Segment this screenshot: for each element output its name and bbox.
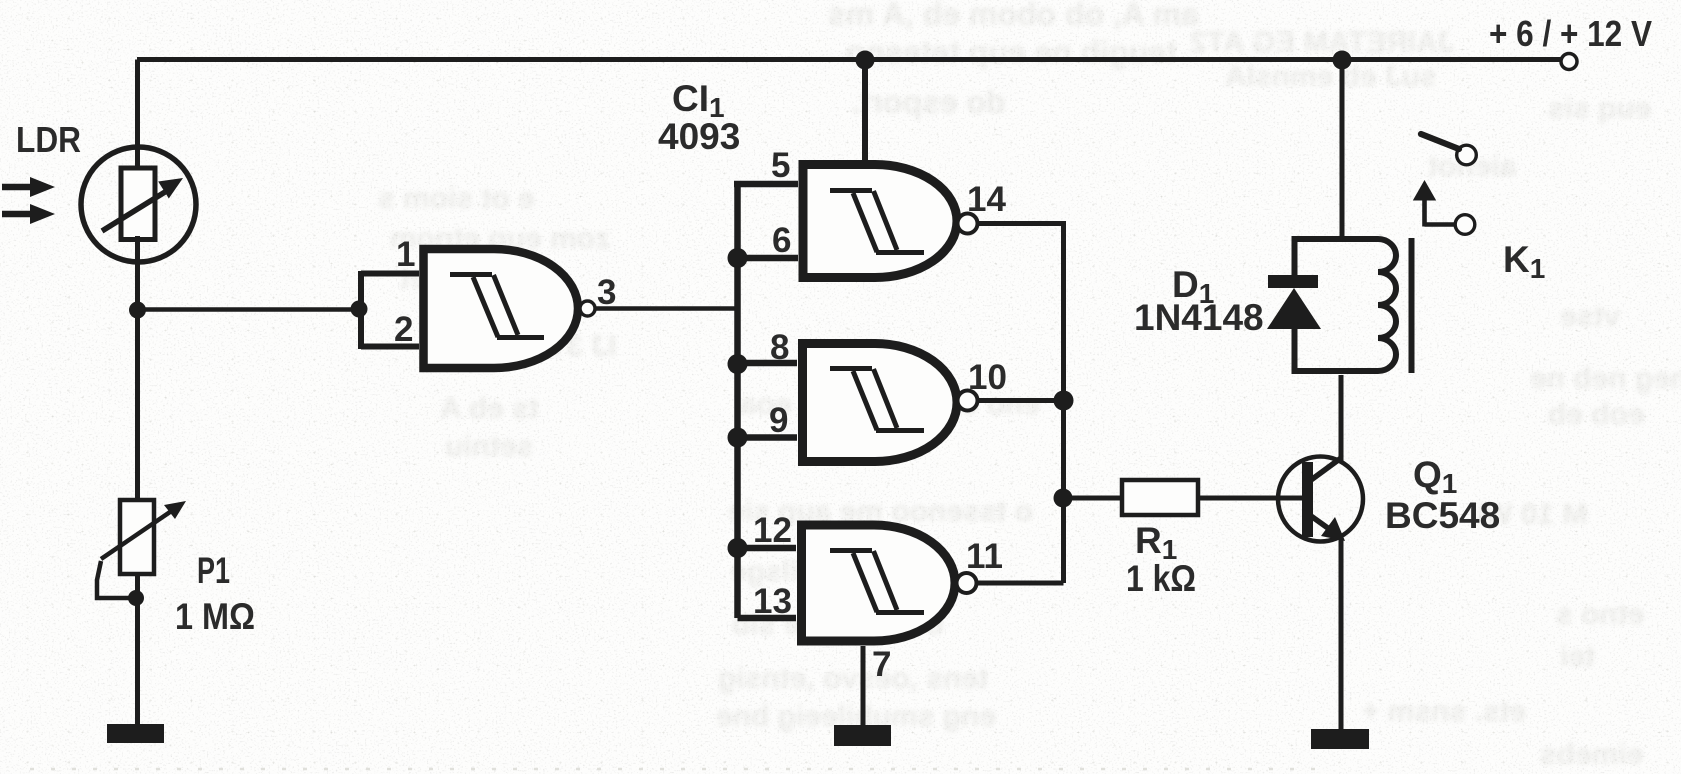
wire supply to gate b (pin 14 VDD) xyxy=(862,60,868,162)
svg-text:9: 9 xyxy=(769,401,788,440)
potentiometer P1 arrow xyxy=(101,512,170,559)
wire gate1 input bracket xyxy=(361,271,419,349)
transistor Q1 emitter diagonal xyxy=(1311,516,1332,531)
ground right xyxy=(1311,729,1369,749)
svg-text:BC548: BC548 xyxy=(1385,495,1500,536)
gate b output bubble xyxy=(958,214,978,234)
wire emitter down to ground xyxy=(1339,536,1344,730)
schmitt symbol gate d xyxy=(830,551,924,613)
NAND gate CI1-b body xyxy=(803,165,957,278)
bleed-through header right xyxy=(1190,26,1454,60)
bleed-through middle xyxy=(740,388,1040,422)
node pin6 junction xyxy=(728,248,748,268)
svg-text:13: 13 xyxy=(753,582,792,621)
bleed-through right margin xyxy=(1428,150,1516,184)
node P1 wiper junction xyxy=(128,590,144,606)
node pin9 junction xyxy=(728,428,748,448)
transistor Q1 collector diagonal xyxy=(1311,458,1341,480)
NAND gate CI1-d body xyxy=(802,525,956,641)
wire gate a output to gates input bracket xyxy=(595,306,737,311)
svg-text:10: 10 xyxy=(968,358,1007,397)
relay contact K1 upper terminal xyxy=(1457,145,1477,165)
svg-text:3: 3 xyxy=(597,273,616,312)
wire LDR top xyxy=(135,60,140,173)
wire bus to R1 xyxy=(1063,496,1122,501)
svg-text:14: 14 xyxy=(967,180,1006,219)
wire LDR bottom to P1 xyxy=(135,236,140,500)
svg-text:4093: 4093 xyxy=(658,116,740,157)
node bus to R1 junction xyxy=(1054,489,1073,508)
wire R1 to Q1 base xyxy=(1198,496,1303,501)
schmitt symbol gate a xyxy=(450,275,544,338)
wire pin 7 to ground xyxy=(861,646,866,727)
relay K1 core bar xyxy=(1409,238,1415,373)
svg-text:LDR: LDR xyxy=(16,119,81,160)
bleed-through text top center line 2 xyxy=(846,34,1177,71)
gate a output bubble xyxy=(580,301,595,316)
K1 actuator arrow shaft xyxy=(1422,199,1427,227)
NAND gate CI1-a body (pins 1,2 -> 3) xyxy=(424,249,579,368)
transistor Q1 base bar xyxy=(1302,462,1313,537)
svg-text:5: 5 xyxy=(771,146,790,185)
wire gate c output to bus xyxy=(978,398,1064,403)
transistor Q1 circle xyxy=(1278,457,1363,542)
wire top supply rail xyxy=(137,57,1561,62)
bleed-through left column xyxy=(378,182,535,216)
svg-text:1 MΩ: 1 MΩ xyxy=(175,596,255,637)
svg-text:6: 6 xyxy=(772,221,791,260)
node bus gate c junction xyxy=(1054,391,1074,411)
light arrow 2 xyxy=(2,211,34,218)
wire P1 wiper xyxy=(97,561,133,598)
wire bus middle xyxy=(1061,401,1066,584)
bleed-through text "do esport" xyxy=(851,84,1006,121)
bleed-through text top center xyxy=(828,0,1199,33)
svg-text:8: 8 xyxy=(770,328,789,367)
light arrow 1 xyxy=(2,184,34,191)
wire K1 lower contact xyxy=(1425,222,1456,227)
svg-text:12: 12 xyxy=(753,511,792,550)
svg-text:P1: P1 xyxy=(197,550,230,591)
relay contact K1 lower terminal xyxy=(1455,215,1475,235)
faint scan line bottom xyxy=(30,768,1320,771)
node supply rail junction xyxy=(856,51,875,70)
svg-text:1: 1 xyxy=(396,235,415,274)
svg-text:7: 7 xyxy=(872,645,891,684)
wire gate d output to bus xyxy=(977,581,1064,586)
wire gate b output to bus xyxy=(978,224,1064,402)
wire divider to gate1 inputs xyxy=(138,307,359,312)
svg-text:2: 2 xyxy=(394,310,413,349)
terminal +6/+12V xyxy=(1561,54,1577,70)
transistor Q1 emitter arrowhead xyxy=(1321,517,1345,541)
resistor R1 xyxy=(1122,480,1198,515)
wire gates b-d input bracket xyxy=(734,184,798,618)
wire supply to relay coil xyxy=(1340,60,1345,237)
node pin8 junction xyxy=(728,354,748,374)
LDR arrow xyxy=(102,192,165,231)
schmitt symbol gate c xyxy=(830,369,924,431)
relay K1 coil outline xyxy=(1295,239,1397,371)
diode D1 cathode bar xyxy=(1268,275,1318,288)
NAND gate CI1-c body xyxy=(803,344,958,462)
schmitt symbol gate b xyxy=(830,191,924,253)
relay contact K1 lever xyxy=(1421,134,1459,149)
potentiometer P1 body xyxy=(120,500,154,574)
svg-text:+ 6 / + 12 V: + 6 / + 12 V xyxy=(1489,13,1652,54)
ground middle xyxy=(834,725,891,746)
node LDR/P1 divider junction xyxy=(129,302,146,319)
wire P1 to ground xyxy=(135,574,140,726)
gate d output bubble xyxy=(957,573,977,593)
svg-text:1 kΩ: 1 kΩ xyxy=(1126,558,1196,599)
bleed-through "Alarme de luz" xyxy=(1225,60,1437,94)
LDR circle xyxy=(81,147,196,262)
gate c output bubble xyxy=(958,391,978,411)
node pin12 junction xyxy=(728,538,748,558)
node supply rail relay junction xyxy=(1333,51,1352,70)
K1 actuator arrowhead xyxy=(1413,180,1436,201)
svg-text:11: 11 xyxy=(966,537,1003,576)
LDR resistor body xyxy=(121,168,155,240)
wire collector up to relay xyxy=(1339,375,1344,461)
bleed-through right column xyxy=(1548,92,1651,126)
ground left xyxy=(107,724,164,743)
diode D1 triangle xyxy=(1267,288,1321,329)
svg-text:1N4148: 1N4148 xyxy=(1134,297,1264,338)
node gate1 input junction xyxy=(351,301,368,318)
